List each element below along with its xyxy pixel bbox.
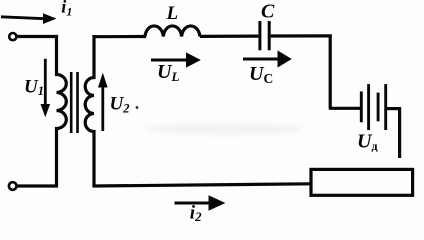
resistor (load) [311,169,413,195]
svg-text:i2: i2 [190,203,202,225]
current arrow i2 [175,195,226,211]
wire battery left lead [329,107,361,110]
wire top rail (inductor to capacitor) [200,34,259,38]
battery cell plate short 1 [360,91,363,122]
wire battery right lead [386,107,401,110]
wire top rail (transformer to inductor) [93,35,147,38]
scan smudge (faint) [147,123,303,135]
svg-text:UL: UL [157,61,179,84]
battery cell plate short 2 [377,93,380,122]
transformer secondary winding [85,35,94,187]
wire bottom rail [93,184,312,186]
svg-text:U2: U2 [110,94,130,116]
svg-text:L: L [166,3,179,24]
voltage arrow UC [243,50,292,67]
battery cell plate long 2 [384,84,387,130]
wire top-left [17,35,59,38]
svg-text:Uд: Uд [357,130,378,153]
transformer primary winding [57,35,67,187]
current arrow i1 [1,13,57,24]
terminal (input top) [9,33,16,40]
wire top rail (capacitor to corner) [271,34,332,37]
capacitor C [260,21,269,50]
svg-text:i1: i1 [61,0,72,18]
stray dot [136,106,139,109]
voltage arrow U1 [41,59,51,117]
voltage arrow UL [151,52,201,67]
svg-text:U1: U1 [24,77,44,99]
voltage arrow U2 [98,73,108,131]
inductor L [145,26,200,37]
transformer core [71,72,77,133]
battery cell plate long 1 [367,84,370,130]
svg-text:UC: UC [249,63,273,86]
wire right vertical (battery down) [398,107,401,158]
svg-text:C: C [261,1,275,23]
wire right vertical (to battery) [329,35,332,109]
wire bottom-left [16,184,58,187]
terminal (input bottom) [9,182,17,190]
